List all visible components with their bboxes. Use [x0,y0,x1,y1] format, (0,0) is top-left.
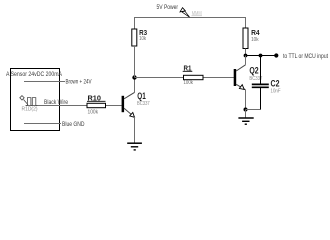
node dot at R4 junction [244,54,248,58]
svg-text:10nF: 10nF [271,88,281,94]
wire Q2 collector line / output [246,55,277,57]
svg-text:R10: R10 [88,94,102,103]
output terminal dot [274,53,278,57]
ground below Q2 [238,118,253,124]
svg-text:100k: 100k [184,80,194,86]
wire Q1 collector up [134,78,136,93]
node junction at Q1 collector [132,75,136,79]
node dot Q2 emitter / C2 return [244,108,248,112]
svg-text:to TTL or MCU input: to TTL or MCU input [283,54,328,60]
svg-text:R1: R1 [184,64,192,73]
svg-text:Q1: Q1 [137,91,146,101]
svg-text:Brown + 24V: Brown + 24V [66,79,93,86]
wire Q2 emitter down [245,90,247,110]
resistor R3 [132,29,137,46]
resistor R1 [184,75,204,79]
sensor box A [11,69,60,131]
wire node to ground [245,110,247,119]
resistor R10 [87,103,106,107]
svg-text:Black Wire: Black Wire [44,99,68,106]
capacitor C2 [260,56,262,84]
wire blue GND [24,123,61,125]
wire Q2 collector up [245,56,247,65]
resistor R4 [243,28,248,49]
wire brown +24V [24,81,65,83]
svg-text:5V Power: 5V Power [157,4,179,11]
transistor Q2 [234,65,263,90]
wire R3 bottom lead [134,46,136,78]
wire R4 bottom lead [245,49,247,56]
node dot at C2 branch [259,54,263,58]
svg-text:Q2: Q2 [249,65,258,75]
svg-text:C2: C2 [271,78,280,88]
wire top rail [135,18,246,30]
svg-text:BC337: BC337 [137,101,150,107]
wire black (sensor output to Q1 base) [26,105,122,107]
svg-text:R4: R4 [251,28,260,37]
wire emitter node to C2 bottom [246,109,261,111]
wire mid rail (Q1 collector to Q2 base via R1) [135,77,234,79]
svg-text:R1D(2): R1D(2) [22,107,38,113]
svg-text:100k: 100k [88,109,99,115]
svg-text:Blue GND: Blue GND [62,121,85,128]
wire Q1 emitter down [134,117,136,143]
ground below Q1 [127,143,142,150]
transistor Q1 [122,91,150,117]
svg-text:10k: 10k [251,37,259,43]
svg-text:A Sensor 24vDC 200mA: A Sensor 24vDC 200mA [6,71,63,78]
sensor pulse symbol (diamond + pulse train) [20,96,38,106]
svg-text:10k: 10k [139,36,146,42]
